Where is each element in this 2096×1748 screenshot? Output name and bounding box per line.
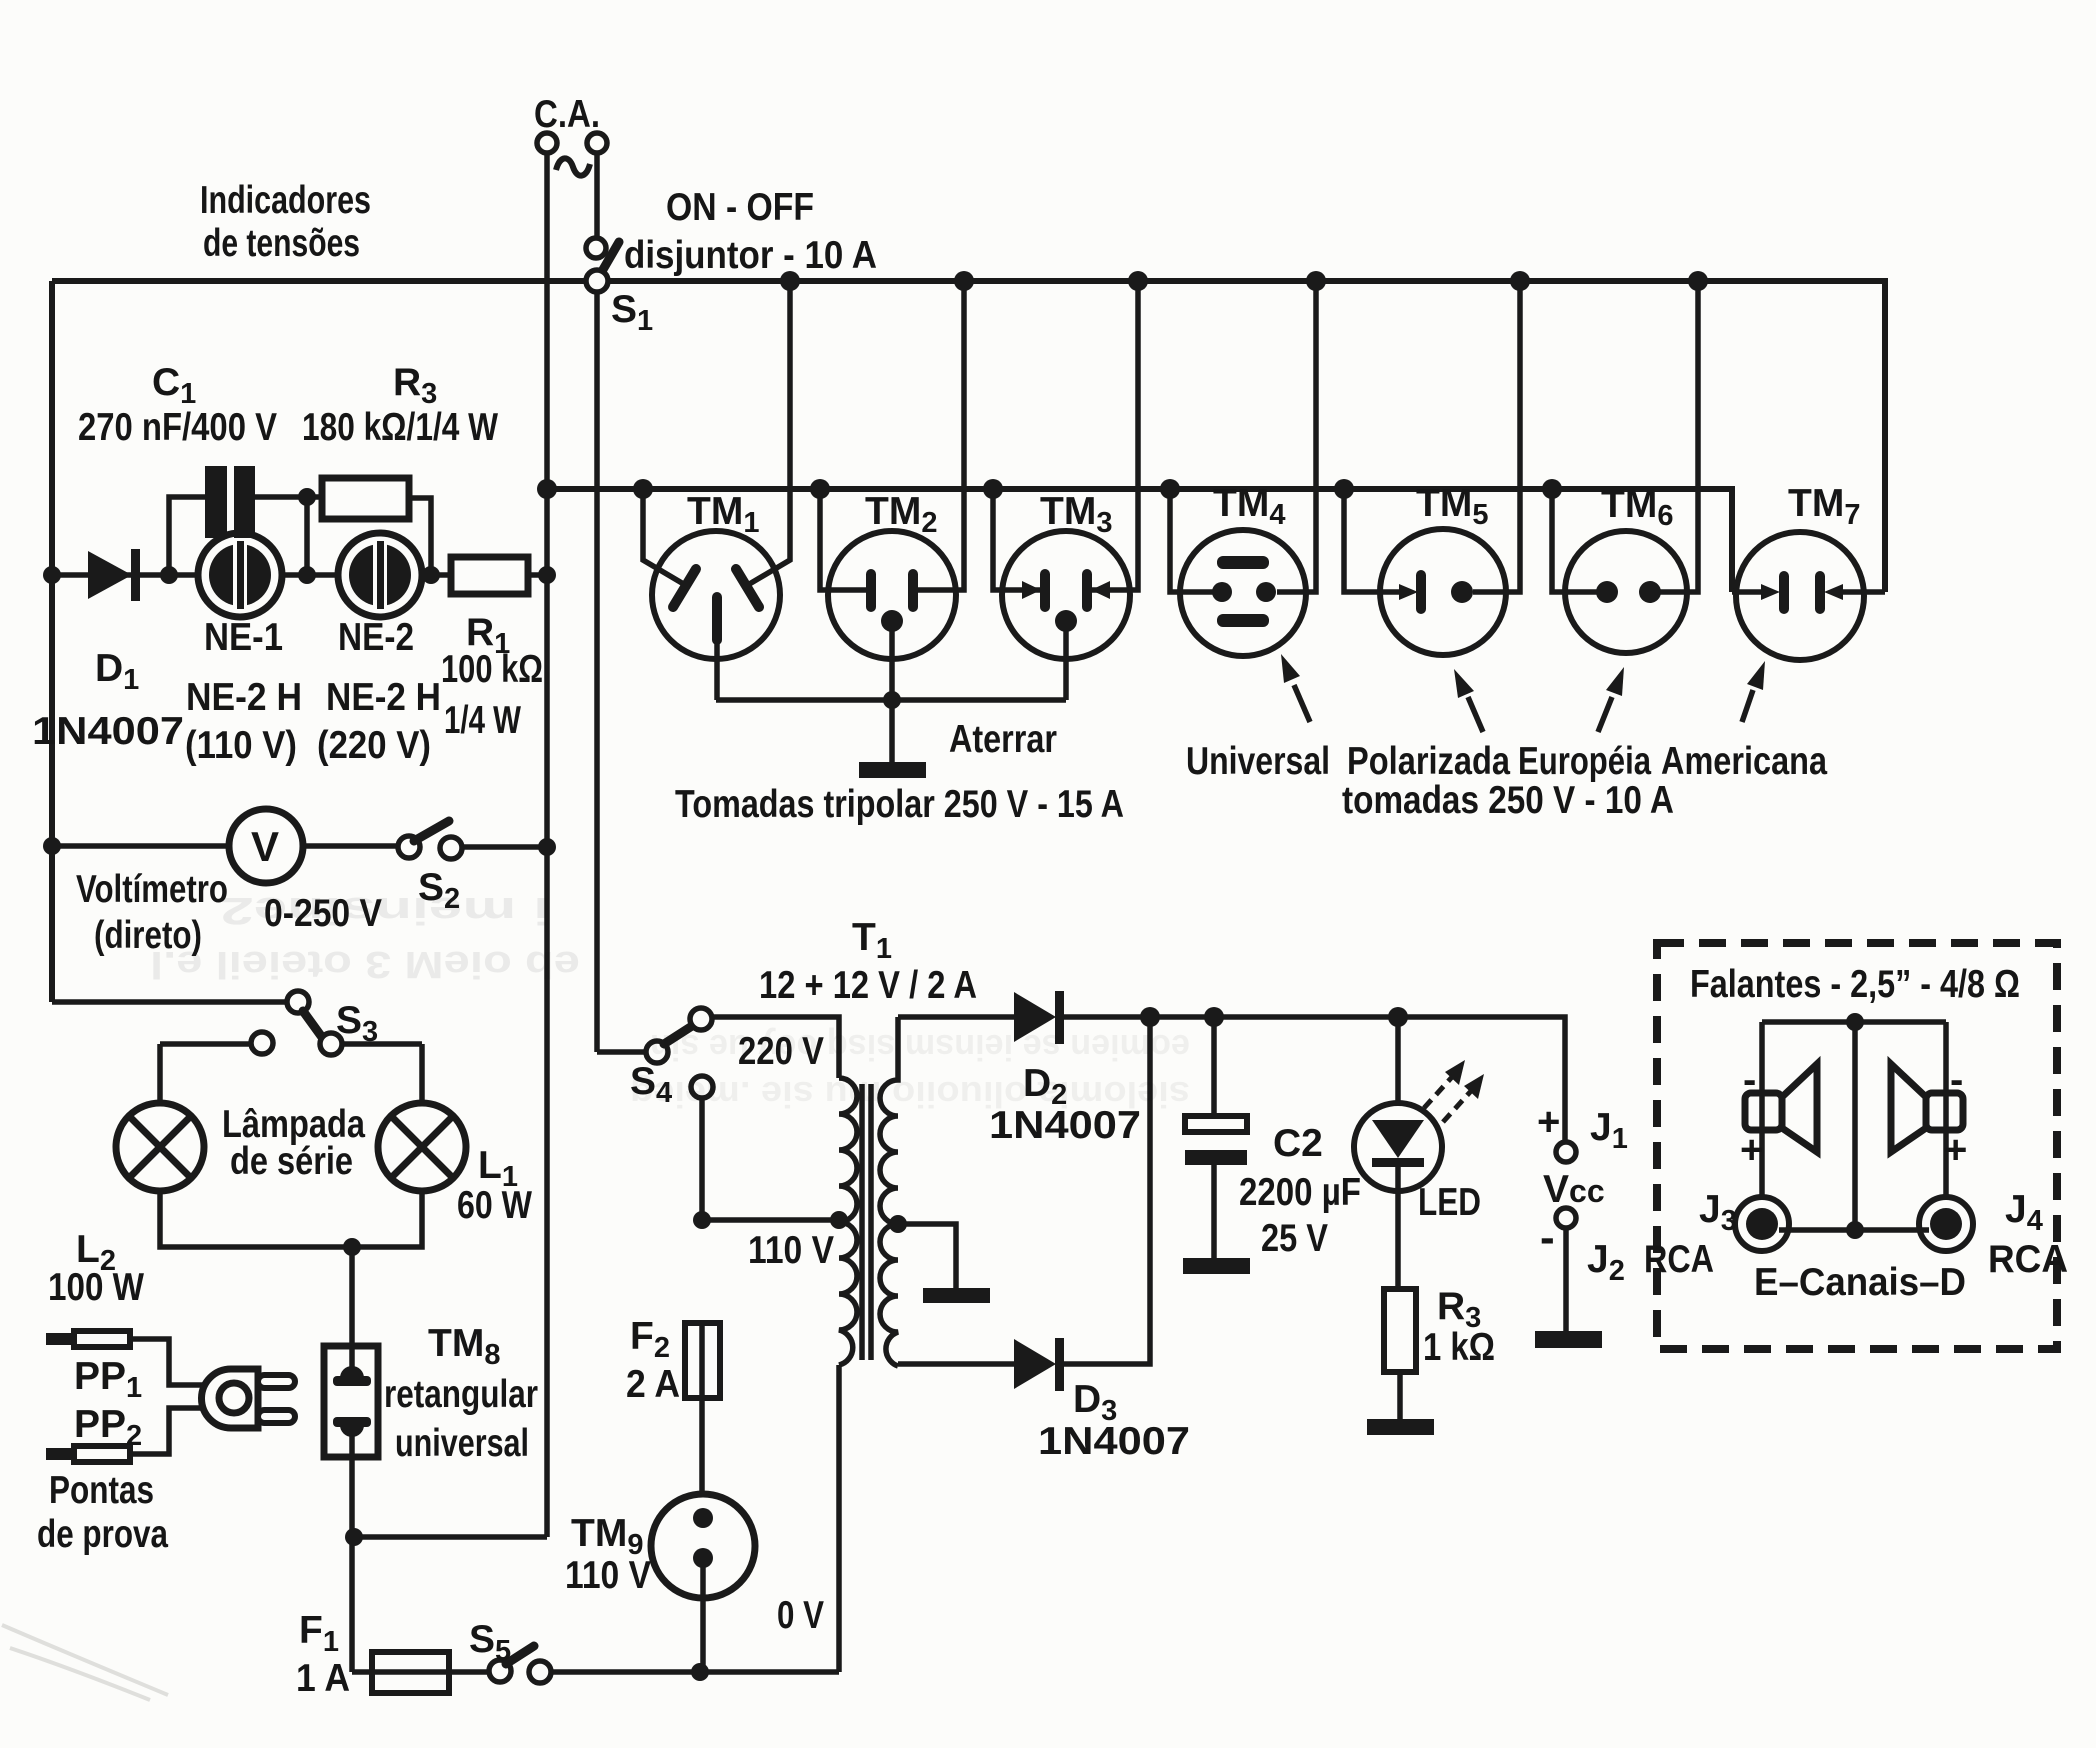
wire DC rail — [1150, 1017, 1565, 1142]
svg-text:TM2: TM2 — [865, 490, 937, 539]
node A after D1 — [160, 566, 178, 584]
speaker right — [1891, 1064, 1963, 1152]
svg-text:+: + — [1740, 1128, 1763, 1172]
svg-text:1 kΩ: 1 kΩ — [1423, 1326, 1495, 1369]
wire ground bus tripolar — [716, 700, 1066, 762]
arrow to TM5 — [1454, 669, 1483, 732]
node speakers top — [1846, 1013, 1864, 1031]
arrow to TM4 — [1281, 654, 1310, 722]
switch S5 — [489, 1660, 511, 1682]
svg-text:ON - OFF: ON - OFF — [666, 186, 814, 229]
wire secondary top to D2 — [898, 1014, 1014, 1020]
wire S3 feed — [52, 999, 287, 1005]
terminal C.A. right — [587, 133, 607, 153]
wire J2 to ground — [1563, 1228, 1569, 1331]
wire left vertical — [49, 281, 55, 1002]
node B top — [298, 488, 316, 506]
jack J4 — [1919, 1197, 1973, 1251]
terminal C.A. left — [537, 133, 557, 153]
svg-text:Americana: Americana — [1661, 740, 1827, 783]
switch S1 — [586, 238, 606, 258]
wire primary bottom 0V — [836, 1365, 842, 1672]
svg-text:+: + — [1944, 1128, 1967, 1172]
svg-text:100 W: 100 W — [48, 1266, 144, 1309]
transformer T1 primary — [839, 1078, 857, 1222]
svg-text:270 nF/400 V: 270 nF/400 V — [78, 406, 277, 449]
node ground junction — [883, 691, 901, 709]
LED arrows — [1424, 1060, 1484, 1122]
wire TM8 down — [349, 1425, 355, 1672]
ground C2 — [1183, 1258, 1250, 1274]
wire S4 to 110V tap — [702, 1098, 839, 1220]
svg-text:TM7: TM7 — [1788, 482, 1860, 531]
svg-text:60 W: 60 W — [457, 1184, 532, 1227]
jack J3 — [1735, 1197, 1789, 1251]
svg-text:de série: de série — [230, 1140, 353, 1183]
svg-text:C.A.: C.A. — [534, 93, 600, 136]
svg-text:Indicadores: Indicadores — [200, 179, 371, 222]
socket TM7 — [1736, 532, 1864, 660]
svg-text:NE-2 H: NE-2 H — [186, 676, 302, 719]
socket TM4 — [1180, 530, 1306, 656]
svg-text:de prova: de prova — [37, 1513, 168, 1556]
node voltmeter left — [43, 837, 61, 855]
node left end — [43, 566, 61, 584]
svg-text:100 kΩ: 100 kΩ — [441, 648, 543, 691]
svg-text:Universal: Universal — [1186, 740, 1330, 783]
svg-text:S3: S3 — [336, 999, 378, 1048]
switch S2 — [398, 836, 420, 858]
fuse F1 — [352, 1669, 372, 1675]
wire S4 to 220V tap — [712, 1017, 839, 1078]
probe PP1 — [46, 1333, 76, 1345]
node rail1 drops — [780, 271, 800, 291]
terminal J2 — [1556, 1208, 1576, 1228]
voltmeter V — [229, 809, 303, 883]
node DC rail — [1140, 1007, 1160, 1027]
neon lamp NE-2 — [338, 533, 422, 617]
svg-text:(220 V): (220 V) — [317, 724, 431, 767]
wire TM8 junction to CA vertical — [354, 1534, 547, 1540]
wire C.A. left vertical down to TM8 junction — [544, 153, 550, 1537]
capacitor C1 — [205, 466, 227, 538]
wire left speaker vertical — [1759, 1022, 1765, 1198]
svg-text:Polarizada: Polarizada — [1347, 740, 1510, 783]
svg-text:J4: J4 — [2005, 1188, 2043, 1237]
svg-text:retangular: retangular — [384, 1373, 538, 1416]
wire indicator row — [52, 572, 547, 578]
neon lamp NE-1 — [198, 533, 282, 617]
arrow to TM6 — [1598, 667, 1624, 732]
svg-text:F2: F2 — [630, 1315, 670, 1364]
svg-text:J2: J2 — [1587, 1238, 1625, 1287]
svg-text:C2: C2 — [1273, 1122, 1323, 1165]
svg-text:1/4 W: 1/4 W — [444, 699, 521, 742]
wire TM1 right — [746, 281, 790, 586]
wire voltmeter row — [52, 846, 547, 847]
svg-text:tomadas 250 V - 10 A: tomadas 250 V - 10 A — [1342, 779, 1674, 822]
svg-text:2200 µF: 2200 µF — [1239, 1171, 1361, 1214]
wire TM2 right — [918, 281, 964, 590]
svg-text:TM1: TM1 — [687, 490, 759, 539]
svg-text:2 A: 2 A — [626, 1363, 680, 1406]
svg-text:RCA: RCA — [1644, 1238, 1714, 1281]
pencil scratch bottom left — [2, 1625, 168, 1700]
svg-text:J1: J1 — [1590, 1106, 1628, 1155]
lamp L2 — [116, 1103, 204, 1191]
svg-text:-: - — [1540, 1213, 1555, 1262]
svg-text:S1: S1 — [611, 288, 653, 337]
probe PP2 — [46, 1448, 76, 1460]
wire TM6 right — [1660, 281, 1698, 592]
node bottom rail TM9 — [691, 1663, 709, 1681]
wire C.A. right down to S1 — [594, 153, 600, 238]
socket TM8 — [324, 1346, 378, 1457]
arrow to TM7 — [1742, 661, 1765, 722]
wire bottom rail — [551, 1669, 839, 1675]
transformer T1 core — [862, 1084, 871, 1360]
wire top rail — [52, 281, 1885, 592]
wire TM7 left — [1732, 589, 1770, 595]
node C after NE-2 — [422, 566, 440, 584]
svg-text:RCA: RCA — [1988, 1238, 2068, 1281]
svg-text:V: V — [251, 823, 279, 870]
svg-text:1N4007: 1N4007 — [32, 710, 184, 753]
wire C1 branch riser — [169, 497, 205, 575]
svg-text:+: + — [1537, 1100, 1560, 1144]
svg-text:TM3: TM3 — [1040, 490, 1112, 539]
svg-text:F1: F1 — [299, 1609, 339, 1658]
socket TM1 — [652, 531, 780, 700]
capacitor C2 — [1211, 1017, 1217, 1116]
wire center tap to ground — [898, 1224, 956, 1288]
svg-text:NE-2 H: NE-2 H — [326, 676, 441, 719]
svg-text:R3: R3 — [393, 361, 437, 410]
svg-text:sielomia oliuoiio mu sie .meie: sielomia oliuoiio mu sie .meieg — [630, 1074, 1190, 1115]
switch S4 — [597, 1049, 646, 1055]
svg-text:NE-2: NE-2 — [338, 616, 414, 659]
socket TM2 — [828, 531, 956, 700]
switch S3 — [287, 991, 309, 1013]
node B on row — [298, 566, 316, 584]
socket TM5 — [1380, 529, 1506, 655]
svg-text:25 V: 25 V — [1261, 1217, 1328, 1260]
svg-text:12 + 12 V / 2 A: 12 + 12 V / 2 A — [759, 964, 977, 1007]
svg-text:1N4007: 1N4007 — [1038, 1420, 1190, 1463]
svg-text:C1: C1 — [152, 361, 196, 410]
diode D2 — [1014, 992, 1056, 1042]
node second rail start — [537, 479, 557, 499]
node lamp bottom junction — [343, 1238, 361, 1256]
wire secondary bottom to D3 — [898, 1361, 1014, 1367]
wire right speaker vertical — [1943, 1022, 1949, 1198]
wire TM3 right — [1092, 281, 1138, 590]
wire TM1 left — [643, 489, 687, 586]
node D on CA vertical — [538, 566, 556, 584]
svg-text:de tensões: de tensões — [203, 222, 360, 265]
svg-text:J3: J3 — [1699, 1188, 1737, 1237]
svg-text:180 kΩ/1/4 W: 180 kΩ/1/4 W — [302, 406, 498, 449]
wire S1 down to S4 — [594, 292, 600, 1052]
lamp L1 — [378, 1103, 466, 1191]
ground J2 — [1535, 1331, 1602, 1348]
resistor R3 1k — [1384, 1289, 1416, 1372]
wire lamp junction down to TM8 — [349, 1247, 355, 1378]
svg-text:(110 V): (110 V) — [185, 724, 297, 767]
svg-text:Voltímetro: Voltímetro — [76, 868, 228, 911]
scan ghost artifacts — [150, 889, 580, 985]
diode D1 — [88, 551, 132, 599]
svg-text:PP2: PP2 — [74, 1403, 142, 1452]
wire speakers bottom — [1779, 1227, 1929, 1233]
svg-text:Falantes - 2,5” - 4/8 Ω: Falantes - 2,5” - 4/8 Ω — [1690, 963, 2020, 1006]
wire node B riser — [304, 497, 310, 575]
svg-text:Aterrar: Aterrar — [949, 718, 1057, 761]
svg-text:S5: S5 — [469, 1618, 511, 1667]
svg-text:disjuntor - 10 A: disjuntor - 10 A — [624, 234, 877, 277]
svg-text:110 V: 110 V — [748, 1229, 834, 1272]
svg-text:Européia: Européia — [1518, 740, 1651, 783]
svg-text:Vcc: Vcc — [1543, 1168, 1605, 1211]
diode D3 — [1014, 1339, 1056, 1389]
wire TM4 right — [1277, 281, 1316, 592]
dashed box Falantes — [1657, 943, 2057, 1349]
svg-text:D1: D1 — [95, 647, 139, 696]
speaker left — [1745, 1064, 1817, 1152]
node rail2 drops — [633, 479, 653, 499]
wire TM6 left — [1552, 489, 1597, 592]
svg-text:T1: T1 — [852, 916, 892, 965]
svg-text:Pontas: Pontas — [49, 1469, 154, 1512]
node speakers bottom — [1846, 1221, 1864, 1239]
ground R3 — [1367, 1419, 1434, 1435]
svg-text:TM8: TM8 — [428, 1322, 500, 1371]
wire center vertical — [1852, 1022, 1858, 1230]
wire TM5 left — [1344, 489, 1410, 592]
AC symbol ~ — [556, 158, 590, 175]
wire TM4 left — [1170, 489, 1213, 592]
node TM8 CA junction — [345, 1528, 363, 1546]
svg-text:i meinsine2: i meinsine2 — [220, 889, 550, 931]
svg-text:Tomadas tripolar 250 V - 15 A: Tomadas tripolar 250 V - 15 A — [675, 783, 1124, 826]
wire C1 to node B — [255, 494, 307, 500]
socket TM6 — [1565, 531, 1687, 653]
terminal J1 — [1556, 1142, 1576, 1162]
svg-text:1 A: 1 A — [296, 1657, 350, 1700]
socket TM3 — [1002, 531, 1130, 700]
test plug — [202, 1369, 296, 1428]
svg-text:0 V: 0 V — [777, 1594, 824, 1637]
svg-text:-: - — [1950, 1058, 1963, 1102]
transformer T1 secondary — [880, 1017, 898, 1224]
svg-text:PP1: PP1 — [74, 1355, 142, 1404]
fuse F2 — [685, 1323, 720, 1398]
svg-text:110 V: 110 V — [565, 1554, 651, 1597]
resistor R3 180k — [307, 494, 322, 500]
wire second rail — [547, 489, 1732, 592]
wire TM2 left — [820, 489, 866, 590]
svg-text:universal: universal — [395, 1422, 529, 1465]
svg-text:NE-1: NE-1 — [204, 616, 283, 659]
wire lamp loop — [160, 1044, 422, 1247]
ground center tap — [923, 1288, 990, 1303]
node voltmeter right — [538, 838, 556, 856]
svg-text:LED: LED — [1418, 1181, 1481, 1224]
LED — [1395, 1017, 1401, 1103]
wire TM5 right — [1473, 281, 1520, 592]
ground Aterrar — [859, 762, 926, 778]
node 110V — [693, 1211, 711, 1229]
resistor R1 — [451, 557, 528, 594]
svg-text:eb oieM 3 oteieil e.l: eb oieM 3 oteieil e.l — [150, 943, 580, 985]
svg-text:E–Canais–D: E–Canais–D — [1754, 1261, 1966, 1304]
svg-text:eomien se ieinsm sisq oey ue s: eomien se ieinsm sisq oey ue sin — [650, 1027, 1190, 1068]
wire TM3 left — [993, 489, 1040, 590]
socket TM9 — [651, 1494, 755, 1672]
svg-text:-: - — [1743, 1058, 1756, 1102]
wire TM7 right — [1834, 589, 1885, 595]
wire speakers top — [1762, 1019, 1946, 1025]
